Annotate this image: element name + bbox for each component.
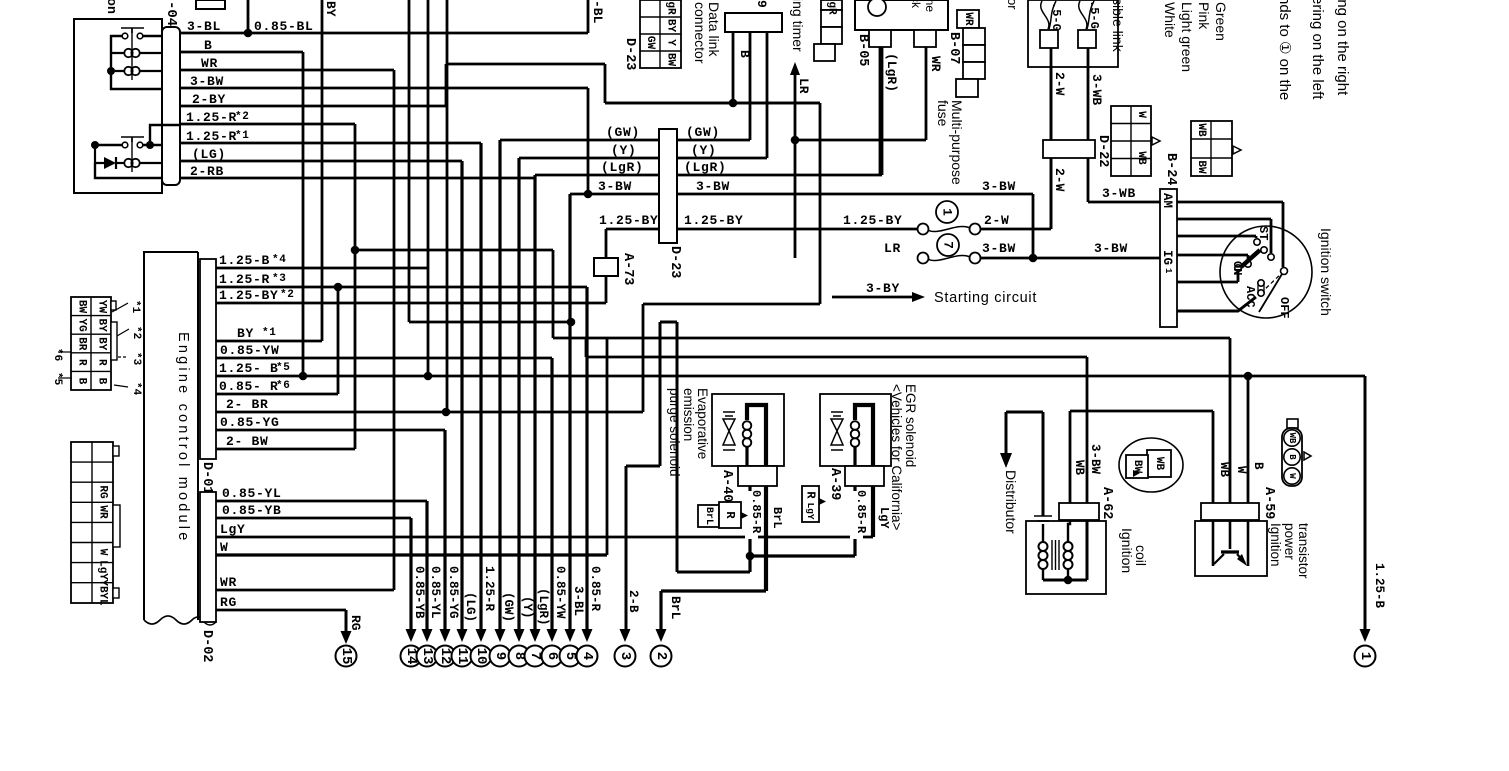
svg-text:WB: WB xyxy=(1287,433,1297,444)
svg-text:1.25- B: 1.25- B xyxy=(219,361,279,376)
wire LR with up arrow xyxy=(794,75,797,258)
svg-text:6: 6 xyxy=(544,652,560,660)
EGR thick loop wire xyxy=(855,405,873,466)
svg-text:15: 15 xyxy=(338,648,354,665)
Engine control module box xyxy=(144,252,198,620)
svg-text:(LgR): (LgR) xyxy=(884,53,899,92)
svg-text:1.25-B: 1.25-B xyxy=(1372,563,1386,609)
connector grid upper-left xyxy=(71,297,111,390)
svg-text:B: B xyxy=(737,50,752,58)
svg-text:-BL: -BL xyxy=(590,0,605,24)
svg-text:WB: WB xyxy=(1153,457,1165,471)
svg-text:Engine control module: Engine control module xyxy=(175,332,191,544)
wire 3-BW left segment xyxy=(570,193,659,196)
svg-text:WR: WR xyxy=(962,12,974,26)
svg-text:3-WB: 3-WB xyxy=(1089,74,1104,105)
wire 2-BW row xyxy=(216,448,355,451)
fuse 7 xyxy=(937,234,959,256)
svg-text:W: W xyxy=(1234,466,1248,474)
node 5 xyxy=(560,646,581,667)
svg-text:*6: *6 xyxy=(276,380,291,392)
diagnosis box (top) xyxy=(725,13,782,32)
svg-text:*5: *5 xyxy=(276,362,291,374)
svg-text:White: White xyxy=(1162,2,1178,38)
connector D-02 strip xyxy=(200,492,216,622)
coil bottom bus xyxy=(1043,520,1087,580)
top edge connector fragment xyxy=(196,0,225,9)
wire 0.85-R evap xyxy=(748,486,751,572)
svg-text:0.85- R: 0.85- R xyxy=(219,379,279,394)
svg-text:0.85-YG: 0.85-YG xyxy=(220,415,280,430)
node 2 xyxy=(656,629,667,642)
svg-text:W: W xyxy=(97,549,109,556)
svg-text:RG: RG xyxy=(97,485,109,499)
svg-text:A-62: A-62 xyxy=(1099,487,1114,519)
svg-text:*2: *2 xyxy=(235,111,250,123)
svg-text:WB: WB xyxy=(1217,462,1231,478)
svg-text:EGR solenoid: EGR solenoid xyxy=(903,384,918,467)
wire 0.85-YW row xyxy=(216,357,552,360)
svg-text:0.85-R: 0.85-R xyxy=(854,490,868,534)
svg-text:-04: -04 xyxy=(163,1,179,26)
node 6 xyxy=(542,646,563,667)
svg-text:transistor: transistor xyxy=(1296,523,1311,579)
svg-text:gR: gR xyxy=(826,1,838,15)
svg-text:3-BW: 3-BW xyxy=(1094,241,1128,256)
svg-text:9: 9 xyxy=(754,0,769,8)
svg-text:1.25-BY: 1.25-BY xyxy=(684,213,744,228)
wire WR from B-07 xyxy=(795,47,926,140)
svg-text:fuse: fuse xyxy=(935,100,951,127)
svg-text:ing on the right: ing on the right xyxy=(1334,0,1351,96)
svg-text:1: 1 xyxy=(1357,652,1373,660)
wire 0.85-R drop to node 4 xyxy=(585,287,588,630)
svg-text:D-22: D-22 xyxy=(1095,135,1110,167)
svg-text:LgY: LgY xyxy=(97,560,109,580)
svg-text:*1: *1 xyxy=(262,327,277,339)
svg-text:BW: BW xyxy=(76,300,88,314)
svg-text:Pink: Pink xyxy=(1196,2,1212,30)
svg-text:2-W: 2-W xyxy=(1052,168,1067,192)
wire 1.25-B riser from top edge xyxy=(427,0,430,376)
wire 0.85-R EGR xyxy=(750,486,855,556)
svg-text:*6: *6 xyxy=(51,348,63,361)
node 7 xyxy=(525,646,546,667)
svg-text:*2: *2 xyxy=(280,289,295,301)
wire BY riser to top edge xyxy=(321,0,324,341)
label 0.85-R on EGR wire xyxy=(850,491,863,539)
svg-text:0.85-YW: 0.85-YW xyxy=(220,343,280,358)
wire ST stub 2 xyxy=(1177,236,1256,238)
switch bridge contact xyxy=(1241,250,1260,267)
wire 1.25-R *2 row xyxy=(180,123,355,126)
node 10 xyxy=(471,646,492,667)
wire (GW) drop to 9 xyxy=(498,140,501,630)
wire B drop from 1.25-B bus xyxy=(1247,376,1250,503)
fuse strip stack right (multi-purpose fuse) xyxy=(957,10,979,28)
wire W row xyxy=(216,553,607,556)
wire B riser to 1.25-B bus xyxy=(302,52,305,377)
svg-text:A-59: A-59 xyxy=(1261,487,1276,519)
svg-text:D-23: D-23 xyxy=(667,246,682,278)
connector A-39 xyxy=(845,466,884,486)
svg-text:2-RB: 2-RB xyxy=(190,164,224,179)
wire RG drop to 15 xyxy=(345,610,348,632)
svg-text:WR: WR xyxy=(201,56,218,71)
svg-text:B-05: B-05 xyxy=(855,34,870,66)
svg-text:*3: *3 xyxy=(272,273,287,285)
svg-text:R: R xyxy=(723,511,737,519)
svg-text:D-23: D-23 xyxy=(622,38,637,70)
svg-text:nds to ① on the: nds to ① on the xyxy=(1276,0,1293,100)
svg-text:WB: WB xyxy=(1195,123,1207,137)
wire LgY row to EGR xyxy=(216,536,873,539)
wire WR riser to ECM WR row xyxy=(393,70,396,590)
svg-text:9: 9 xyxy=(492,652,508,660)
node 11 xyxy=(452,646,473,667)
svg-text:WB: WB xyxy=(1135,151,1147,165)
svg-text:0.85-BL: 0.85-BL xyxy=(254,19,314,34)
node 8 xyxy=(509,646,530,667)
svg-text:BrL: BrL xyxy=(668,596,683,620)
ignition power transistor box xyxy=(1195,521,1267,576)
wire BrL evap down xyxy=(764,486,768,591)
connector D-01 strip xyxy=(200,259,216,459)
node 14 xyxy=(401,646,422,667)
wire BY *1 row xyxy=(216,340,322,343)
wire 3-BW riser to D-23 xyxy=(587,88,590,194)
fusible link square 2 xyxy=(1078,30,1096,48)
svg-text:BrL: BrL xyxy=(703,507,714,525)
connector strip A-04 xyxy=(162,27,180,185)
svg-text:LgY: LgY xyxy=(220,522,246,537)
svg-text:B-24: B-24 xyxy=(1163,153,1178,185)
EGR coil xyxy=(851,421,860,430)
connector A-62 bar xyxy=(1059,503,1099,520)
fuse strip stack left xyxy=(821,0,842,10)
EGR valve symbol xyxy=(831,412,843,416)
svg-text:3-BW: 3-BW xyxy=(1088,444,1102,475)
svg-text:or: or xyxy=(1005,0,1020,10)
ignition coil primary xyxy=(1042,524,1044,542)
label 0.85-R on wire xyxy=(745,491,758,539)
Evaporative emission purge solenoid box xyxy=(712,394,784,466)
wire 2-W down xyxy=(1050,48,1053,229)
svg-text:Y: Y xyxy=(665,39,677,46)
svg-text:*3: *3 xyxy=(130,352,142,366)
wire 1.25-B *4 row xyxy=(216,267,428,270)
fuse 1 xyxy=(936,201,958,223)
node 3 xyxy=(615,646,636,667)
sub connector A-40 BrL/R xyxy=(698,505,719,527)
svg-text:0.85-R: 0.85-R xyxy=(749,490,763,534)
ignition coil secondary xyxy=(1064,542,1073,551)
svg-text:2: 2 xyxy=(653,652,669,660)
svg-text:2- BR: 2- BR xyxy=(226,397,269,412)
wire 0.85-YW drop to node 6 xyxy=(550,358,553,630)
connector A-40 xyxy=(738,466,777,486)
wire 3-BL row xyxy=(180,32,588,35)
svg-text:1: 1 xyxy=(940,208,955,216)
wire 2-RB row xyxy=(180,177,535,180)
wire 3-BW right row xyxy=(677,194,1033,258)
svg-text:3-BW: 3-BW xyxy=(982,179,1016,194)
wire (GW) left row xyxy=(500,139,659,142)
svg-text:BW: BW xyxy=(1131,460,1143,474)
svg-text:coil: coil xyxy=(1133,545,1149,566)
wire WR row xyxy=(180,69,394,72)
svg-text:(Y): (Y) xyxy=(520,596,534,619)
data link connector grid D-23 xyxy=(640,0,681,68)
svg-text:1.25-BY: 1.25-BY xyxy=(843,213,903,228)
node 12 xyxy=(435,646,456,667)
svg-text:1.25-BY: 1.25-BY xyxy=(599,213,659,228)
svg-text:sible link: sible link xyxy=(1110,0,1126,53)
svg-text:YG: YG xyxy=(76,318,88,332)
wire ACC stub xyxy=(1177,297,1256,311)
EGR solenoid box xyxy=(820,394,891,466)
ACC capsule contact xyxy=(1258,280,1264,286)
svg-text:WR: WR xyxy=(928,56,943,72)
coil cap ticks xyxy=(1034,516,1052,521)
svg-text:*4: *4 xyxy=(130,382,142,396)
wire (Y) right row xyxy=(677,32,767,158)
wire 0.85-YL row xyxy=(216,500,427,503)
wire 3-BW from fuse 7 to ignition switch xyxy=(981,257,1160,260)
svg-text:2-W: 2-W xyxy=(984,213,1010,228)
wire (Y) drop to 8 xyxy=(517,158,520,630)
svg-text:W: W xyxy=(1135,111,1147,118)
svg-text:B: B xyxy=(204,38,213,53)
svg-text:purge solenoid: purge solenoid xyxy=(667,388,682,477)
svg-text:A-39: A-39 xyxy=(827,468,842,500)
svg-text:3-BW: 3-BW xyxy=(982,241,1016,256)
evap valve symbol xyxy=(723,412,735,416)
svg-text:Green: Green xyxy=(1213,2,1229,41)
svg-text:R: R xyxy=(804,491,818,499)
wire 1.25-R *1 row xyxy=(180,142,481,145)
junction dot relay2 right xyxy=(146,141,154,149)
wire 0.85-R *6 link xyxy=(216,287,338,394)
svg-text:(LgR): (LgR) xyxy=(601,160,644,175)
svg-text:BY: BY xyxy=(665,19,677,33)
svg-text:3-WB: 3-WB xyxy=(1102,186,1136,201)
wire B net horiz xyxy=(605,102,820,105)
relay 2 contact xyxy=(122,142,128,148)
svg-text:OFF: OFF xyxy=(1277,297,1291,319)
svg-text:GW: GW xyxy=(644,36,656,50)
fusible link square 1 xyxy=(1040,30,1058,48)
wire 1.25-R *3 row xyxy=(216,286,587,289)
connector B-24 grid xyxy=(1191,121,1232,176)
node 4 xyxy=(577,646,598,667)
wire (GW) right row xyxy=(677,32,750,140)
svg-text:BW: BW xyxy=(665,53,677,67)
wire (LgR) drop to 7 xyxy=(533,175,536,630)
svg-text:0.85-R: 0.85-R xyxy=(588,566,602,612)
wire B row xyxy=(180,51,303,54)
svg-text:4: 4 xyxy=(579,652,595,660)
svg-text:13: 13 xyxy=(419,648,435,665)
wire 0.85-YL drop to node 13 xyxy=(425,501,428,630)
svg-text:A-73: A-73 xyxy=(620,253,635,285)
svg-text:*1: *1 xyxy=(129,300,141,314)
svg-text:*1: *1 xyxy=(235,130,250,142)
node 15 xyxy=(336,646,357,667)
svg-text:R: R xyxy=(96,359,108,366)
svg-text:3-BY: 3-BY xyxy=(866,281,900,296)
node 9 xyxy=(490,646,511,667)
relay box K (top-left control unit) xyxy=(74,19,162,193)
wire AM stub to pivot xyxy=(1177,202,1283,267)
wire W riser and bus to power transistor xyxy=(607,338,1230,555)
wire evap 0.85-R corner xyxy=(677,571,750,574)
svg-text:B: B xyxy=(76,378,88,385)
svg-text:(Y): (Y) xyxy=(611,143,637,158)
svg-text:(LG): (LG) xyxy=(463,592,477,622)
svg-text:*2: *2 xyxy=(130,326,142,339)
svg-text:Evaporative: Evaporative xyxy=(695,388,710,459)
svg-text:3-BW: 3-BW xyxy=(696,179,730,194)
relay 2 coil xyxy=(124,159,132,167)
wire (LgR) from B-05 xyxy=(879,47,882,175)
wire riser x409 to bus322 xyxy=(409,0,571,322)
wire 1.25-B to node 1 xyxy=(1364,376,1367,630)
svg-text:(GW): (GW) xyxy=(501,592,515,622)
svg-text:Ignition switch: Ignition switch xyxy=(1318,228,1334,316)
wire distributor loop xyxy=(1006,412,1043,516)
svg-text:B: B xyxy=(96,378,108,385)
svg-text:Ignition: Ignition xyxy=(1119,528,1135,573)
svg-text:Starting circuit: Starting circuit xyxy=(934,290,1037,306)
diode relay2 xyxy=(95,145,104,163)
svg-text:ine: ine xyxy=(923,0,937,12)
wire 0.85-YB drop to node 14 xyxy=(409,518,412,630)
connector A-59 bar xyxy=(1201,503,1259,520)
svg-text:WR: WR xyxy=(220,575,237,590)
component A-73 xyxy=(594,258,618,276)
svg-text:3-BW: 3-BW xyxy=(190,74,224,89)
svg-text:BY: BY xyxy=(96,337,108,351)
svg-text:BY: BY xyxy=(237,326,254,341)
svg-text:ering on the left: ering on the left xyxy=(1309,0,1326,100)
svg-text:RG: RG xyxy=(220,595,237,610)
sub connector A-39 R/LgY xyxy=(802,486,819,522)
svg-text:YW: YW xyxy=(96,300,108,314)
connector D-23 bar xyxy=(659,129,677,243)
wire 2-W from fuse 1 xyxy=(981,48,1051,229)
node 1 xyxy=(1355,646,1376,667)
svg-text:Ignition: Ignition xyxy=(1268,523,1283,567)
svg-text:BR: BR xyxy=(76,337,88,351)
svg-text:0.85-YB: 0.85-YB xyxy=(412,566,426,619)
svg-text:2-W: 2-W xyxy=(1052,72,1067,96)
wire 2-BY row xyxy=(180,64,820,304)
svg-text:B-07: B-07 xyxy=(946,32,961,64)
svg-text:Light green: Light green xyxy=(1179,2,1195,72)
wire ON stub 2 xyxy=(1177,272,1238,282)
wire LgY EGR down xyxy=(871,486,875,537)
svg-text:emission: emission xyxy=(681,388,696,441)
wire 2-BR link up to B net xyxy=(643,304,820,412)
svg-text:2-BY: 2-BY xyxy=(192,92,226,107)
svg-text:YB: YB xyxy=(97,579,109,593)
svg-text:1: 1 xyxy=(1163,268,1173,274)
wire (LgR) left row xyxy=(535,174,659,177)
svg-text:3-BL: 3-BL xyxy=(187,19,221,34)
switch pivot xyxy=(1281,268,1288,275)
svg-text:.5-G: .5-G xyxy=(1049,2,1063,31)
svg-text:0.85-YB: 0.85-YB xyxy=(222,503,282,518)
svg-text:LR: LR xyxy=(796,78,811,94)
relay 1 coil a xyxy=(124,49,132,57)
svg-text:1.25-R: 1.25-R xyxy=(186,110,237,125)
connector D-22 bar xyxy=(1043,140,1095,158)
svg-text:(Y): (Y) xyxy=(691,143,717,158)
connector B-07 xyxy=(914,30,936,47)
svg-text:ck: ck xyxy=(909,0,923,9)
OFF lever xyxy=(1259,274,1282,312)
ignition coil box xyxy=(1026,521,1106,594)
svg-text:(LgR): (LgR) xyxy=(684,160,727,175)
svg-text:WB: WB xyxy=(1072,460,1086,476)
svg-text:0.85-YW: 0.85-YW xyxy=(553,566,567,619)
wire WR row xyxy=(216,589,394,592)
svg-text:0.85-YG: 0.85-YG xyxy=(446,566,460,619)
wire 3-BY starting circuit xyxy=(832,296,912,299)
wire 0.85-YG drop to node 12 xyxy=(443,430,446,630)
wire WB loop A-62 to A-59 xyxy=(1070,411,1213,503)
evap coil xyxy=(743,421,752,430)
power transistor symbol xyxy=(1213,520,1248,566)
svg-text:3: 3 xyxy=(617,652,633,660)
svg-text:LR: LR xyxy=(884,241,901,256)
junction dot relay2 left xyxy=(91,141,99,149)
svg-text:BY: BY xyxy=(323,1,338,17)
wire 3-BW row xyxy=(180,87,588,90)
svg-text:(LG): (LG) xyxy=(192,147,226,162)
svg-text:1.25-R: 1.25-R xyxy=(482,566,496,612)
wire (LgR) right row xyxy=(677,47,882,175)
svg-text:1.25-BY: 1.25-BY xyxy=(219,288,279,303)
svg-text:(LgR): (LgR) xyxy=(536,588,550,626)
svg-text:ST: ST xyxy=(1256,226,1270,240)
svg-text:WR: WR xyxy=(97,505,109,519)
svg-text:BY: BY xyxy=(96,318,108,332)
coil core xyxy=(1052,540,1059,570)
svg-text:3-BL: 3-BL xyxy=(571,586,585,616)
wire BrL horizontal to node 2 xyxy=(661,589,766,592)
svg-text:D-02: D-02 xyxy=(199,630,214,662)
svg-text:3-BW: 3-BW xyxy=(598,179,632,194)
svg-text:Distributor: Distributor xyxy=(1003,470,1019,534)
ignition switch AM-IG1 bar xyxy=(1160,189,1177,327)
svg-text:(GW): (GW) xyxy=(606,125,640,140)
svg-text:2-B: 2-B xyxy=(626,590,640,613)
svg-text:AM: AM xyxy=(1160,193,1174,208)
component B-05 check engine lamp box xyxy=(855,0,948,30)
svg-text:0.85-YL: 0.85-YL xyxy=(428,566,442,619)
bus from 1.25-R*2 to ignition coil 3-BW xyxy=(355,250,1230,357)
svg-text:1.25-B: 1.25-B xyxy=(219,253,270,268)
svg-text:7: 7 xyxy=(941,241,956,249)
wire B from data link box xyxy=(732,32,735,103)
wire BrL drop node 2 xyxy=(659,591,662,630)
wire 0.85-BL riser xyxy=(247,0,250,33)
relay 1 contact xyxy=(122,33,128,39)
wire RG row xyxy=(216,609,346,612)
svg-text:W: W xyxy=(1287,473,1297,479)
